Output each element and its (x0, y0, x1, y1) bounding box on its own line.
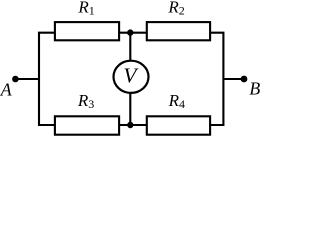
wire: terminal lead from A to left branch (15, 78, 39, 80)
svg-text:B: B (249, 79, 260, 99)
wire: top wire from R1 to R2 through top junction (119, 32, 147, 34)
junction: bottom node dot (127, 122, 133, 128)
node B terminal dot (241, 76, 248, 83)
resistor R1 (55, 22, 119, 40)
resistor R4 (147, 116, 210, 134)
junction: top node dot (127, 29, 133, 35)
wire: right vertical branch with corner stubs to R2 and R4 (210, 33, 223, 125)
svg-text:R1: R1 (77, 0, 94, 18)
wire: middle vertical from top junction to voltmeter (129, 33, 131, 62)
node A terminal dot (12, 76, 19, 83)
resistor R2 (147, 22, 210, 40)
wire: terminal lead from right branch to B (223, 78, 244, 80)
wire: left vertical branch with corner stubs to R1 and R3 (39, 33, 55, 125)
svg-text:A: A (0, 80, 12, 100)
voltmeter V (meter body) (114, 61, 149, 93)
wire: middle vertical from voltmeter to bottom junction (129, 92, 131, 125)
resistor R3 (55, 116, 119, 134)
wire: bottom wire from R3 to R4 through bottom junction (119, 124, 147, 126)
svg-text:R2: R2 (167, 0, 184, 18)
